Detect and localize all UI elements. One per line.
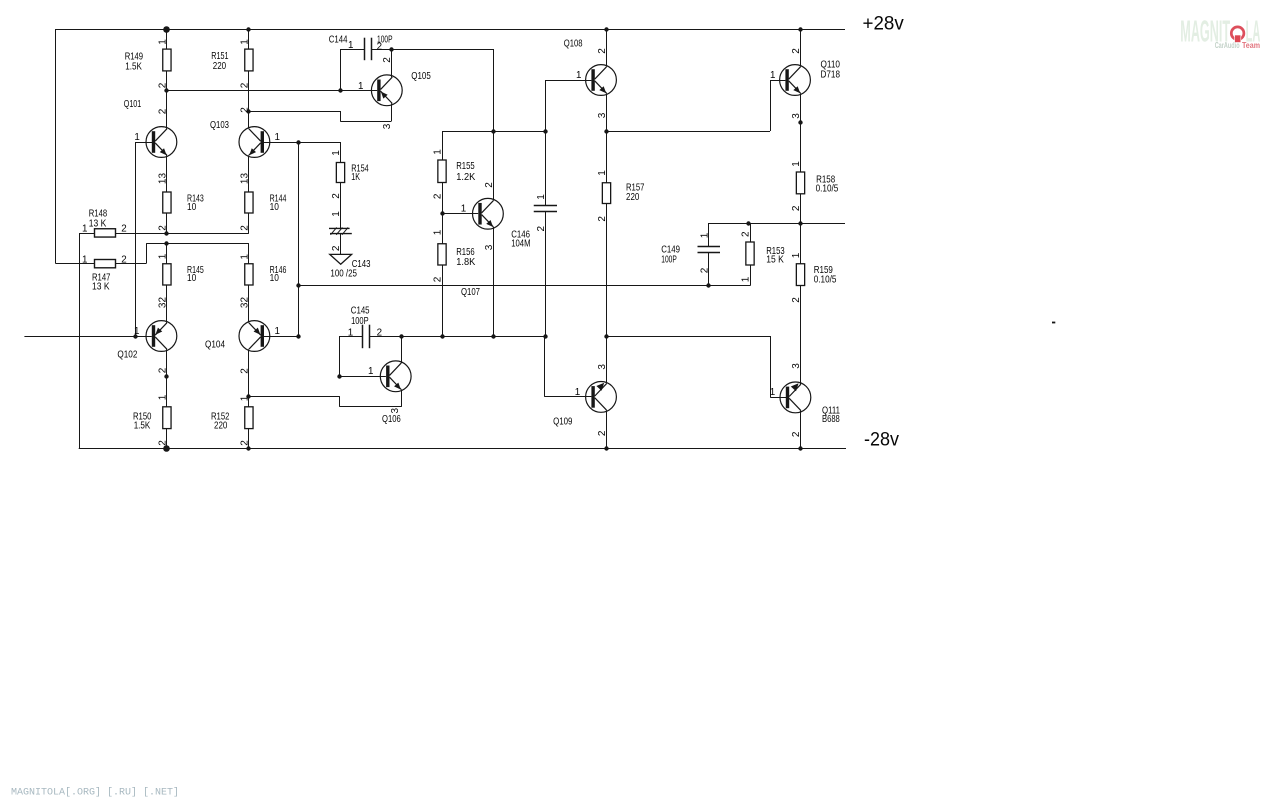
wire R157 pin1 (606, 131, 608, 183)
capacitor C143 (329, 227, 352, 264)
wire feedback rail (299, 285, 750, 287)
svg-text:1: 1 (348, 40, 353, 51)
svg-text:0.10/5: 0.10/5 (814, 274, 837, 286)
svg-text:1: 1 (82, 223, 87, 234)
svg-text:3: 3 (484, 244, 495, 250)
svg-text:1: 1 (699, 232, 710, 238)
svg-text:2: 2 (240, 107, 251, 113)
wire R146 pin1 (248, 243, 250, 263)
svg-text:MAGNITOLA[.ORG] [.RU] [.NET]: MAGNITOLA[.ORG] [.RU] [.NET] (11, 787, 179, 799)
capacitor C146 plates (534, 205, 557, 207)
wire rail D down to Q111 base (770, 336, 772, 397)
wire Q110 emitter to R158 (800, 93, 802, 172)
wire to R147 pin1 (56, 263, 95, 265)
node +28v / Q108 collector (604, 27, 608, 31)
svg-text:2: 2 (377, 41, 382, 52)
wire Q107 collector up (493, 49, 495, 201)
svg-text:15 K: 15 K (766, 254, 784, 266)
svg-text:0.10/5: 0.10/5 (816, 182, 839, 194)
svg-text:2: 2 (377, 327, 382, 338)
node C149.2 feedback rail (706, 283, 710, 287)
svg-text:2: 2 (158, 367, 169, 373)
svg-text:Q101: Q101 (124, 98, 142, 110)
logo red dot (1235, 35, 1241, 42)
wire R147 pin2 stub (116, 263, 147, 265)
svg-text:2: 2 (597, 430, 608, 436)
svg-text:2: 2 (433, 193, 444, 199)
svg-text:+28v: +28v (863, 13, 904, 35)
svg-text:1: 1 (597, 170, 608, 176)
svg-text:2: 2 (121, 223, 126, 234)
svg-text:3: 3 (791, 363, 802, 369)
svg-text:1: 1 (791, 161, 802, 167)
svg-text:1: 1 (770, 387, 775, 398)
svg-text:3: 3 (382, 123, 393, 129)
svg-text:1: 1 (134, 326, 139, 337)
wire +28v top rail (56, 29, 846, 31)
resistor R155 body (438, 160, 446, 183)
svg-text:1K: 1K (351, 171, 360, 183)
node feedback rail left (296, 283, 300, 287)
node +28v / Q110 collector (798, 27, 802, 31)
svg-text:1: 1 (240, 39, 251, 45)
capacitor C145 plates (362, 325, 364, 349)
wire Q104 collector jog c (340, 406, 401, 408)
node Q106 collector rail C (399, 334, 403, 338)
svg-text:1: 1 (368, 366, 373, 377)
wire R159 pin1 (800, 223, 802, 264)
wire rail C (369, 336, 546, 338)
resistor R144 body (245, 192, 253, 213)
node +28v / R149 (163, 26, 170, 33)
resistor R159 body (796, 264, 804, 286)
svg-text:13: 13 (158, 173, 169, 185)
svg-text:104M: 104M (511, 237, 530, 249)
svg-text:1: 1 (461, 204, 466, 215)
resistor R151 body (245, 49, 253, 71)
node C146.2 / Q109 base (543, 334, 547, 338)
svg-text:2: 2 (699, 267, 710, 273)
svg-text:2: 2 (158, 440, 169, 446)
logo red ring O (1231, 27, 1244, 40)
svg-text:2: 2 (382, 57, 393, 63)
capacitor C149 plates (698, 246, 721, 248)
svg-text:-28v: -28v (864, 429, 899, 451)
svg-text:2: 2 (158, 82, 169, 88)
node Q107 base (440, 211, 444, 215)
node -28v / Q111 emitter (798, 446, 802, 450)
wire R147.2/R145.1/R146.1 rail (146, 243, 249, 245)
svg-text:10: 10 (187, 272, 196, 284)
wire rail B (607, 131, 771, 133)
svg-text:2: 2 (597, 48, 608, 54)
svg-text:220: 220 (213, 60, 227, 72)
resistor R152 body (245, 407, 253, 429)
transistor Q108 (586, 65, 617, 96)
wire Q101 emitter to R143 (166, 155, 168, 192)
node Q106 base / C145.1 (337, 374, 341, 378)
svg-text:2: 2 (597, 216, 608, 222)
node Q104 emitter / R152 (246, 394, 250, 398)
wire Q109 base stub (545, 396, 592, 398)
node Q108 base / C146 (543, 129, 547, 133)
wire C145.1 down to Q106 base (339, 336, 341, 376)
svg-text:1: 1 (358, 81, 363, 92)
node R143.2 rail (164, 231, 168, 235)
svg-text:R155: R155 (456, 160, 475, 172)
wire R153 pin1 (750, 265, 752, 286)
svg-text:13: 13 (240, 173, 251, 185)
resistor R145 body (163, 264, 171, 285)
wire R149 pin1 (166, 29, 168, 49)
svg-text:1: 1 (348, 327, 353, 338)
svg-text:2: 2 (791, 48, 802, 54)
wire Q104 collector jog a (249, 396, 340, 398)
node +28v / R151 (246, 27, 250, 31)
svg-text:1: 1 (134, 132, 139, 143)
wire Q103 collector jog a (249, 111, 340, 113)
wire Q104 base (264, 336, 299, 338)
svg-text:2: 2 (433, 276, 444, 282)
svg-text:1: 1 (158, 253, 169, 259)
svg-text:2: 2 (240, 440, 251, 446)
wire rail A (442, 131, 546, 133)
svg-text:1: 1 (331, 211, 342, 217)
svg-text:Q105: Q105 (411, 70, 431, 82)
svg-text:32: 32 (158, 297, 169, 309)
node -28v / R152 (246, 446, 250, 450)
wire input to Q102 base (24, 336, 151, 338)
wire R157 pin2 to Q109 collector (606, 204, 608, 337)
svg-text:3: 3 (597, 112, 608, 118)
svg-text:Q102: Q102 (117, 349, 137, 361)
svg-text:100 /25: 100 /25 (330, 268, 357, 280)
node Q103 collector (246, 109, 250, 113)
svg-text:2: 2 (240, 82, 251, 88)
node R153.2 output rail (746, 221, 750, 225)
svg-text:1: 1 (575, 387, 580, 398)
svg-text:1.5K: 1.5K (134, 420, 151, 432)
wire R153 pin2 (750, 223, 752, 242)
svg-text:1: 1 (791, 252, 802, 258)
node Q110 emitter (798, 120, 802, 124)
wire Q111 base stub (770, 397, 786, 399)
wire R150 pin2 (166, 429, 168, 449)
svg-text:2: 2 (331, 245, 342, 251)
wire Q109 collector stub (606, 336, 608, 384)
wire Q111 emitter (800, 411, 802, 449)
svg-text:1.5K: 1.5K (125, 60, 142, 72)
wire Q108 collector (606, 29, 608, 67)
node -28v / Q109 emitter (604, 446, 608, 450)
svg-text:1: 1 (158, 394, 169, 400)
node Q104 base (296, 334, 300, 338)
resistor R154 body (336, 163, 344, 183)
svg-text:10: 10 (270, 272, 279, 284)
svg-text:1: 1 (331, 150, 342, 156)
resistor R158 body (796, 172, 804, 194)
svg-text:1.8K: 1.8K (456, 256, 475, 268)
svg-text:CarAudio: CarAudio (1215, 41, 1240, 50)
svg-text:1: 1 (275, 132, 280, 143)
capacitor C144 plates (364, 38, 366, 61)
wire Q103 base to R154 (299, 142, 341, 144)
wire Q102 to R150 (166, 349, 168, 407)
node Q107 emitter rail C (491, 334, 495, 338)
wire C146 pin2 down (545, 211, 547, 336)
wire R151 pin1 (248, 29, 250, 49)
svg-text:1: 1 (433, 149, 444, 155)
wire Q109 base down (544, 336, 546, 397)
svg-text:Q103: Q103 (210, 119, 229, 131)
wire R148 pin1 stub (80, 233, 95, 235)
transistor Q105 (371, 75, 402, 106)
svg-text:100P: 100P (351, 315, 369, 327)
svg-text:10: 10 (270, 201, 279, 213)
svg-text:10: 10 (187, 201, 196, 213)
node R149.2 base wire (164, 88, 168, 92)
node Q102 base / input (133, 334, 137, 338)
wire R143 pin2 (166, 213, 168, 233)
node Q105 collector (389, 47, 393, 51)
svg-text:1: 1 (536, 194, 547, 200)
resistor R148 body (95, 229, 116, 237)
wire Q110 base stub (770, 80, 785, 82)
wire Q108 emitter (606, 93, 608, 131)
transistor Q111 (780, 382, 811, 413)
svg-text:2: 2 (741, 231, 752, 237)
svg-text:13 K: 13 K (92, 281, 110, 293)
resistor R143 body (163, 192, 171, 213)
wire Q104 to R152 (248, 349, 250, 407)
wire R145 pin1 (166, 243, 168, 263)
wire Q103 emitter to R144 (248, 155, 250, 192)
svg-text:1: 1 (770, 70, 775, 81)
transistor Q104 (239, 321, 270, 352)
wire Q109 emitter (606, 410, 608, 448)
svg-text:2: 2 (536, 225, 547, 231)
svg-text:2: 2 (331, 193, 342, 199)
svg-text:Q107: Q107 (461, 286, 480, 298)
svg-text:220: 220 (626, 191, 640, 203)
svg-text:2: 2 (158, 108, 169, 114)
svg-text:Q109: Q109 (553, 416, 572, 428)
wire rail B up to Q110 base (770, 80, 772, 131)
transistor Q107 (473, 198, 504, 229)
node C144.1 / Q105 base (338, 88, 342, 92)
wire C145 pin1 stub (340, 336, 362, 338)
transistor Q102 (146, 321, 177, 352)
wire R158 pin2 (800, 194, 802, 223)
svg-text:1: 1 (82, 254, 87, 265)
wire Q101 base down (135, 142, 137, 336)
svg-text:1: 1 (240, 395, 251, 401)
wire C149 pin2 (708, 253, 710, 286)
node Q108 emitter / R157 (604, 129, 608, 133)
svg-text:2: 2 (791, 431, 802, 437)
wire R155 pin1 (442, 131, 444, 160)
node R157.2 / Q109 collector (604, 334, 608, 338)
wire R159.2 to Q111 (800, 286, 802, 385)
wire R148.2/R143.2/R144.2 rail (116, 233, 249, 235)
svg-text:1.2K: 1.2K (456, 171, 475, 183)
wire R144 pin2 (248, 213, 250, 233)
wire R152 pin2 (248, 429, 250, 449)
svg-text:Q108: Q108 (564, 37, 583, 49)
svg-text:3: 3 (597, 364, 608, 370)
svg-text:1: 1 (433, 229, 444, 235)
resistor R157 body (602, 183, 610, 204)
svg-text:1: 1 (240, 254, 251, 260)
wire R149.2 to Q101 collector (166, 71, 168, 129)
wire R147 pin2 riser (146, 243, 148, 263)
wire Q108 base / C146 pin1 (545, 80, 547, 205)
node Q107 collector rail A (491, 129, 495, 133)
svg-text:2: 2 (158, 225, 169, 231)
svg-text:2: 2 (791, 297, 802, 303)
svg-text:1: 1 (275, 326, 280, 337)
wire R145.2 to Q102 (166, 285, 168, 323)
transistor Q110 (780, 65, 811, 96)
node Q103 base (296, 140, 300, 144)
wire R149.2 to Q105 base (167, 90, 377, 92)
node Q102 emitter / R150 (164, 374, 168, 378)
wire Q107 base (442, 213, 478, 215)
wire rail D (607, 336, 771, 338)
wire Q106 base (340, 376, 386, 378)
node R156.2 rail C (440, 334, 444, 338)
wire Q103 collector jog b (340, 111, 342, 121)
wire C144.1 down to Q105 base (340, 49, 342, 90)
wire R156 pin2 down (442, 265, 444, 336)
wire C149 pin1 (708, 223, 710, 246)
svg-text:C144: C144 (329, 34, 348, 46)
svg-text:2: 2 (121, 254, 126, 265)
logo MAGNITOLA (1180, 13, 1260, 49)
wire Q106 emitter (401, 390, 403, 407)
svg-text:B688: B688 (822, 413, 840, 425)
wire C144 pin1 (340, 49, 364, 51)
svg-text:13 K: 13 K (89, 217, 107, 229)
wire Q106 collector (401, 336, 403, 363)
svg-text:2: 2 (484, 182, 495, 188)
wire R146.2 to Q104 (248, 285, 250, 323)
resistor R153 body (746, 242, 754, 265)
svg-text:Q104: Q104 (205, 339, 225, 351)
wire R151.2 to Q103 collector (248, 71, 250, 129)
svg-text:32: 32 (240, 297, 251, 309)
wire R155.2 R156.1 (442, 183, 444, 244)
wire R148 pin1 down to -28v rail (79, 233, 81, 448)
wire Q105 collector (391, 49, 393, 77)
resistor R149 body (163, 49, 171, 71)
svg-text:3: 3 (390, 407, 401, 413)
wire Q107 emitter down (493, 227, 495, 336)
wire Q103 base to Q104 base column (298, 142, 300, 336)
svg-text:220: 220 (214, 420, 228, 432)
wire R154.2 to C143 (340, 183, 342, 229)
svg-text:2: 2 (240, 225, 251, 231)
svg-text:1: 1 (741, 276, 752, 282)
resistor R150 body (163, 407, 171, 429)
wire Q101 base (136, 142, 152, 144)
svg-text:1: 1 (576, 70, 581, 81)
node -28v / R150 (163, 445, 170, 452)
wire R154 pin1 (340, 142, 342, 163)
svg-text:D718: D718 (821, 69, 841, 81)
wire -28v bottom rail (79, 448, 846, 450)
wire left border down to R147 (55, 29, 57, 264)
stray dash mark (1052, 322, 1055, 324)
resistor R147 body (95, 260, 116, 268)
svg-text:2: 2 (791, 205, 802, 211)
svg-text:3: 3 (791, 113, 802, 119)
wire Q103 base (264, 142, 299, 144)
wire output rail (709, 223, 845, 225)
wire C143 internal stem (340, 234, 342, 255)
resistor R146 body (245, 264, 253, 285)
svg-text:100P: 100P (661, 254, 677, 266)
wire Q104 collector jog b (339, 397, 341, 407)
wire Q110 collector (800, 29, 802, 67)
svg-text:Team: Team (1242, 41, 1260, 50)
transistor Q106 (380, 361, 411, 392)
svg-text:2: 2 (240, 368, 251, 374)
transistor Q103 (239, 127, 270, 158)
transistor Q101 (146, 127, 177, 158)
resistor R156 body (438, 244, 446, 265)
svg-text:Q106: Q106 (382, 413, 401, 425)
node R145.1 rail (164, 241, 168, 245)
node R158.2 / R159.1 output rail (798, 221, 802, 225)
wire Q108 base stub (546, 80, 592, 82)
svg-text:1: 1 (158, 39, 169, 45)
wire C144.2 to Q107 collector (371, 49, 493, 51)
wire Q105 emitter (391, 104, 393, 122)
wire Q103 collector jog c (340, 121, 391, 123)
transistor Q109 (586, 382, 617, 413)
